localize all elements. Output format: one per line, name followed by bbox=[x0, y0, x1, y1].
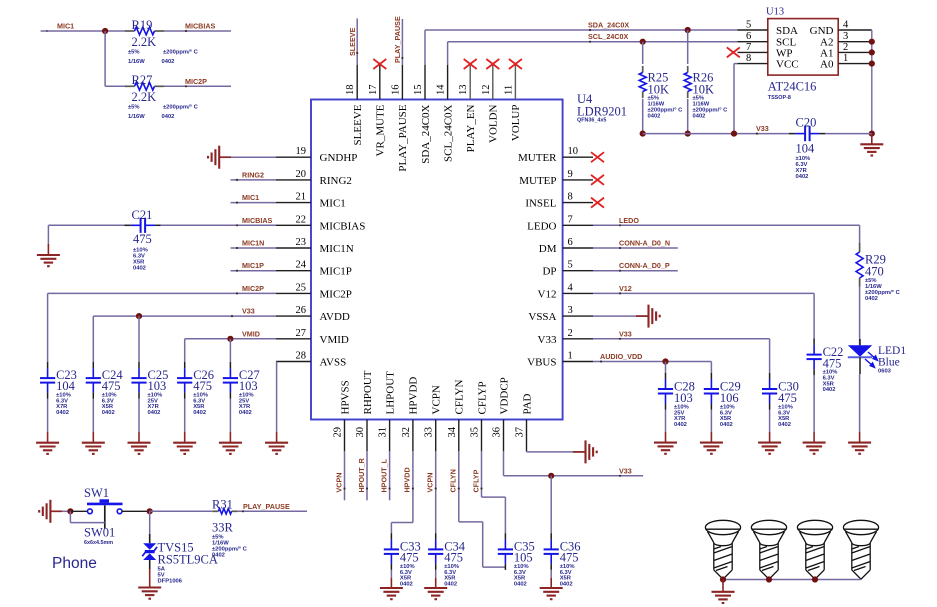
net label anchor bbox=[185, 85, 187, 87]
wire C36 riser bbox=[550, 476, 552, 534]
junction AUDIO_VDD / C28 bbox=[662, 358, 668, 364]
net label anchor bbox=[756, 133, 758, 135]
junction SW1 bbox=[67, 508, 73, 514]
svg-text:0402: 0402 bbox=[778, 422, 791, 428]
wire PAD corner bbox=[526, 450, 528, 453]
wire ground stub bbox=[573, 451, 586, 453]
svg-text:PLAY_PAUSE: PLAY_PAUSE bbox=[243, 502, 290, 511]
ground U13 bbox=[860, 144, 883, 155]
svg-text:3: 3 bbox=[843, 31, 848, 42]
LED LED1 Blue bbox=[848, 339, 878, 374]
svg-text:SCL_24C0X: SCL_24C0X bbox=[588, 32, 629, 41]
svg-text:VCC: VCC bbox=[776, 59, 799, 71]
svg-text:HPOUT_L: HPOUT_L bbox=[379, 458, 388, 492]
svg-text:19: 19 bbox=[296, 146, 307, 157]
capacitor C22 bbox=[807, 345, 822, 370]
junction VMID / C27 bbox=[227, 336, 233, 342]
wire C30 to ground bbox=[769, 410, 771, 433]
svg-text:VR_MUTE: VR_MUTE bbox=[375, 104, 387, 156]
resistor R31 bbox=[212, 509, 238, 514]
svg-text:PLAY_PAUSE: PLAY_PAUSE bbox=[397, 104, 409, 171]
wire C28 to ground bbox=[665, 410, 667, 433]
svg-text:1/16W: 1/16W bbox=[128, 59, 145, 65]
wire R26 top bbox=[687, 30, 689, 64]
svg-text:SW1: SW1 bbox=[84, 486, 109, 500]
svg-text:HPVSS: HPVSS bbox=[339, 380, 351, 414]
wire LEDO bbox=[593, 224, 860, 226]
net label anchor bbox=[412, 487, 414, 489]
wire V33 down to C30 bbox=[769, 339, 771, 374]
wire red ground stem bbox=[390, 578, 392, 588]
svg-text:Phone: Phone bbox=[52, 555, 97, 572]
wire C27 riser bbox=[229, 339, 231, 363]
net label anchor bbox=[236, 202, 238, 204]
svg-text:5: 5 bbox=[568, 260, 573, 271]
wire CFLYN down bbox=[482, 522, 484, 567]
svg-text:23: 23 bbox=[296, 237, 307, 248]
svg-text:15: 15 bbox=[413, 85, 424, 96]
svg-text:3: 3 bbox=[568, 305, 573, 316]
svg-text:MIC1: MIC1 bbox=[242, 193, 259, 202]
svg-text:10K: 10K bbox=[693, 83, 715, 97]
svg-text:103: 103 bbox=[239, 379, 258, 393]
svg-text:MIC1P: MIC1P bbox=[320, 266, 352, 278]
svg-text:33R: 33R bbox=[212, 521, 234, 535]
wire VCC stub bbox=[734, 63, 738, 65]
capacitor C27 bbox=[223, 368, 238, 393]
net label anchor bbox=[619, 247, 621, 249]
wire CFLYN down bbox=[458, 451, 460, 522]
svg-text:R31: R31 bbox=[212, 497, 233, 511]
svg-text:29: 29 bbox=[333, 427, 344, 438]
U4 pin 37 PAD stub bbox=[526, 420, 528, 452]
svg-text:HPOUT_R: HPOUT_R bbox=[357, 457, 366, 492]
U4 pin 9 MUTEP stub bbox=[563, 179, 593, 181]
capacitor C26 bbox=[177, 368, 192, 393]
svg-text:±200ppm/° C: ±200ppm/° C bbox=[163, 50, 199, 56]
U4 pin 8 INSEL stub bbox=[563, 202, 593, 204]
wire red ground stem bbox=[710, 432, 712, 443]
U4 pin 32 HPVDD stub bbox=[412, 420, 414, 452]
wire V33 down to C24 bbox=[92, 316, 94, 362]
ground C26 bbox=[173, 443, 196, 454]
wire C21 to ground bbox=[47, 225, 49, 245]
U4 pin 31 LHPOUT stub bbox=[389, 420, 391, 452]
wire to R27 bbox=[105, 85, 125, 87]
svg-text:R27: R27 bbox=[132, 73, 153, 87]
ground C22 bbox=[803, 443, 826, 454]
wire VDDCP down bbox=[503, 451, 505, 476]
svg-text:MIC2P: MIC2P bbox=[185, 77, 207, 86]
svg-text:CFLYN: CFLYN bbox=[454, 379, 466, 414]
junction A1 bbox=[869, 49, 875, 55]
junction V33 / C25 bbox=[136, 313, 142, 319]
svg-text:CONN-A_D0_N: CONN-A_D0_N bbox=[619, 239, 670, 248]
wire SCL_24C0X riser bbox=[447, 42, 449, 65]
U4 pin 10 MUTER stub bbox=[563, 156, 593, 158]
svg-text:475: 475 bbox=[560, 551, 579, 565]
U13 pin 2 A1 stub bbox=[838, 51, 872, 53]
svg-text:106: 106 bbox=[720, 391, 739, 405]
no-connect X pin 13 bbox=[464, 59, 477, 69]
junction SDA / R26 bbox=[685, 27, 691, 33]
net label anchor bbox=[242, 510, 244, 512]
svg-text:0402: 0402 bbox=[148, 410, 161, 416]
svg-text:V33: V33 bbox=[756, 124, 769, 133]
svg-text:PLAY_EN: PLAY_EN bbox=[465, 104, 477, 152]
U4 pin 1 VBUS stub bbox=[563, 361, 593, 363]
wire HPVDD jog left bbox=[391, 522, 413, 524]
svg-text:LDR9201: LDR9201 bbox=[577, 105, 627, 119]
svg-text:26: 26 bbox=[296, 305, 307, 316]
svg-text:PLAY_PAUSE: PLAY_PAUSE bbox=[393, 16, 402, 63]
svg-text:V33: V33 bbox=[242, 307, 255, 316]
ground C34 bbox=[424, 588, 447, 599]
mounting screw MH1 bbox=[705, 520, 740, 579]
wire HPVDD down bbox=[412, 451, 414, 523]
svg-text:V33: V33 bbox=[619, 329, 632, 338]
ground PAD sideways bbox=[586, 440, 597, 463]
svg-text:TSSOP-8: TSSOP-8 bbox=[768, 95, 791, 101]
U4 pin 7 LEDO stub bbox=[563, 224, 593, 226]
svg-text:RING2: RING2 bbox=[320, 175, 352, 187]
wire VMID down to C26 bbox=[184, 339, 186, 363]
net label anchor bbox=[231, 315, 233, 317]
U13 pin 6 SCL stub bbox=[738, 41, 768, 43]
wire to C29 bbox=[710, 362, 712, 374]
svg-text:MIC2P: MIC2P bbox=[242, 284, 264, 293]
svg-text:AVSS: AVSS bbox=[320, 357, 347, 369]
U4 pin 15 SDA_24C0X stub bbox=[424, 65, 426, 100]
wire GNDHP bbox=[231, 156, 276, 158]
wire RING2 stub bbox=[231, 179, 277, 181]
svg-text:104: 104 bbox=[56, 379, 76, 393]
wire R25 top bbox=[642, 42, 644, 64]
wire PAD to ground bbox=[527, 451, 585, 453]
net label anchor bbox=[435, 487, 437, 489]
U4 pin 12 VOLDN stub bbox=[492, 65, 494, 100]
capacitor C36 bbox=[544, 539, 559, 564]
wire red ground stem bbox=[184, 432, 186, 443]
wire C36 to ground bbox=[550, 570, 552, 578]
svg-text:SDA_24C0X: SDA_24C0X bbox=[588, 21, 629, 30]
net label anchor bbox=[236, 179, 238, 181]
resistor R25 bbox=[639, 66, 646, 98]
svg-text:24: 24 bbox=[296, 260, 307, 271]
svg-text:±5%: ±5% bbox=[128, 50, 140, 56]
wire red ground stem bbox=[435, 578, 437, 588]
wire red ground stem bbox=[722, 580, 724, 592]
svg-text:103: 103 bbox=[148, 379, 167, 393]
svg-text:MIC1N: MIC1N bbox=[242, 239, 264, 248]
svg-text:HPVDD: HPVDD bbox=[408, 377, 420, 415]
U4 pin 36 VDDCP stub bbox=[503, 420, 505, 452]
junction R25 / V33 bbox=[640, 131, 646, 137]
svg-text:10K: 10K bbox=[648, 83, 670, 97]
svg-text:0402: 0402 bbox=[648, 114, 661, 120]
ground C23 bbox=[36, 443, 59, 454]
wire red ground stem bbox=[92, 432, 94, 443]
U4 pin 24 MIC1P stub bbox=[276, 270, 311, 272]
svg-text:475: 475 bbox=[778, 391, 797, 405]
wire C22 to ground bbox=[813, 375, 815, 432]
ground screws bbox=[712, 592, 735, 603]
svg-text:CONN-A_D0_P: CONN-A_D0_P bbox=[619, 261, 670, 270]
wire red ground stem bbox=[859, 432, 861, 443]
svg-text:INSEL: INSEL bbox=[525, 198, 556, 210]
svg-text:5: 5 bbox=[746, 20, 751, 31]
svg-text:7: 7 bbox=[746, 42, 751, 53]
svg-text:VSSA: VSSA bbox=[528, 311, 556, 323]
svg-text:475: 475 bbox=[400, 551, 419, 565]
no-connect X pin 17 bbox=[373, 59, 386, 69]
svg-text:PAD: PAD bbox=[521, 393, 533, 414]
svg-text:103: 103 bbox=[674, 391, 693, 405]
svg-text:0402: 0402 bbox=[674, 422, 687, 428]
wire R26 bottom bbox=[687, 99, 689, 134]
U4 pin 30 RHPOUT stub bbox=[366, 420, 368, 452]
svg-text:AUDIO_VDD: AUDIO_VDD bbox=[600, 352, 642, 361]
svg-text:8: 8 bbox=[568, 192, 573, 203]
U4 pin 2 V33 stub bbox=[563, 338, 593, 340]
wire MIC2P bbox=[48, 292, 276, 294]
wire red ground stem bbox=[665, 432, 667, 443]
U13 pin 4 GND stub bbox=[838, 29, 872, 31]
svg-text:U13: U13 bbox=[766, 7, 784, 18]
junction screw 3 bbox=[812, 576, 818, 582]
svg-text:Blue: Blue bbox=[878, 357, 900, 369]
U13 pin 7 WP stub bbox=[738, 51, 768, 53]
wire red ground stem bbox=[47, 432, 49, 443]
U13 pin 3 A2 stub bbox=[838, 41, 872, 43]
svg-text:RHPOUT: RHPOUT bbox=[362, 370, 374, 414]
svg-text:MICBIAS: MICBIAS bbox=[185, 22, 216, 31]
capacitor C29 bbox=[704, 379, 719, 404]
svg-text:18: 18 bbox=[345, 85, 356, 96]
U4 pin 13 PLAY_EN stub bbox=[469, 65, 471, 100]
svg-text:0402: 0402 bbox=[865, 296, 878, 302]
wire SW1 loop down bbox=[69, 511, 71, 522]
ground C29 bbox=[700, 443, 723, 454]
capacitor C30 bbox=[762, 379, 777, 404]
junction SCL / R25 bbox=[640, 39, 646, 45]
wire CFLYP down bbox=[481, 451, 483, 497]
svg-text:28: 28 bbox=[296, 351, 307, 362]
net label anchor bbox=[600, 360, 602, 362]
resistor R26 bbox=[684, 66, 691, 98]
svg-text:0402: 0402 bbox=[133, 266, 146, 272]
IC U13 AT24C16 body bbox=[768, 19, 838, 76]
wire VMID bbox=[185, 338, 276, 340]
resistor R19 bbox=[125, 27, 164, 35]
wire C25 to ground bbox=[138, 399, 140, 433]
svg-text:12: 12 bbox=[481, 85, 492, 96]
wire red ground stem bbox=[813, 432, 815, 443]
wire red ground stem bbox=[276, 432, 278, 443]
junction screw 2 bbox=[766, 576, 772, 582]
no-connect X pin 8 bbox=[591, 198, 604, 208]
svg-text:LED1: LED1 bbox=[878, 345, 906, 357]
wire C24 to ground bbox=[92, 399, 94, 433]
U4 pin 26 AVDD stub bbox=[276, 315, 311, 317]
U4 pin 23 MIC1N stub bbox=[276, 247, 311, 249]
U4 pin 25 MIC2P stub bbox=[276, 292, 311, 294]
svg-text:0402: 0402 bbox=[693, 114, 706, 120]
U4 pin 16 PLAY_PAUSE stub bbox=[401, 65, 403, 100]
ground C30 bbox=[758, 443, 781, 454]
U4 pin 34 CFLYN stub bbox=[458, 420, 460, 452]
svg-text:DM: DM bbox=[539, 243, 557, 255]
wire red ground stem bbox=[138, 432, 140, 443]
capacitor C20 bbox=[795, 126, 820, 141]
wire red ground stem bbox=[149, 569, 151, 588]
svg-text:VCPN: VCPN bbox=[426, 473, 435, 493]
U4 pin 17 VR_MUTE stub bbox=[379, 65, 381, 100]
svg-text:GNDHP: GNDHP bbox=[320, 152, 358, 164]
svg-text:V33: V33 bbox=[619, 466, 632, 475]
net label anchor bbox=[366, 487, 368, 489]
svg-text:AT24C16: AT24C16 bbox=[768, 80, 817, 94]
svg-text:VDDCP: VDDCP bbox=[498, 377, 510, 414]
svg-text:1: 1 bbox=[843, 53, 848, 64]
wire PLAY_PAUSE bbox=[238, 510, 307, 512]
U4 pin 5 DP stub bbox=[563, 270, 593, 272]
U4 pin 6 DM stub bbox=[563, 247, 593, 249]
svg-text:MIC1: MIC1 bbox=[320, 198, 346, 210]
svg-text:475: 475 bbox=[823, 357, 842, 371]
wire AUDIO_VDD bbox=[593, 361, 711, 363]
net label anchor bbox=[589, 41, 591, 43]
wire MIC1 stub bbox=[231, 202, 277, 204]
ground VSSA sideways bbox=[649, 305, 660, 328]
wire MIC1 vertical bbox=[104, 31, 106, 86]
svg-text:QFN36_4x5: QFN36_4x5 bbox=[577, 118, 606, 124]
junction R26 / V33 bbox=[685, 131, 691, 137]
svg-text:6: 6 bbox=[746, 31, 751, 42]
no-connect X pin 12 bbox=[486, 59, 499, 69]
wire MIC2P down to C23 bbox=[47, 293, 49, 362]
wire C27 to ground bbox=[229, 399, 231, 433]
net label anchor bbox=[236, 247, 238, 249]
svg-text:SLEEVE: SLEEVE bbox=[348, 27, 357, 56]
wire R29 to LED1 bbox=[859, 286, 861, 345]
svg-text:MIC1: MIC1 bbox=[57, 22, 74, 31]
svg-text:C21: C21 bbox=[132, 208, 153, 222]
wire HPOUT_L stub bbox=[389, 451, 391, 500]
svg-text:VMID: VMID bbox=[320, 334, 349, 346]
U4 pin 35 CFLYP stub bbox=[481, 420, 483, 452]
ground C27 bbox=[219, 443, 242, 454]
net label anchor bbox=[619, 475, 621, 477]
svg-text:105: 105 bbox=[514, 551, 533, 565]
svg-text:VBUS: VBUS bbox=[527, 357, 556, 369]
junction VCC / V33 bbox=[731, 131, 737, 137]
wire SW1 pin2 bbox=[122, 510, 150, 512]
U4 pin 4 V12 stub bbox=[563, 292, 593, 294]
wire V12 bbox=[593, 292, 814, 294]
wire down to C33 bbox=[390, 523, 392, 534]
net label anchor bbox=[458, 487, 460, 489]
svg-text:C20: C20 bbox=[796, 116, 817, 130]
svg-text:MICBIAS: MICBIAS bbox=[320, 220, 366, 232]
svg-text:0402: 0402 bbox=[444, 581, 457, 587]
ground TVS15 bbox=[138, 588, 161, 599]
svg-text:MUTEP: MUTEP bbox=[519, 175, 556, 187]
svg-text:104: 104 bbox=[796, 142, 816, 156]
no-connect X U13 WP bbox=[727, 47, 740, 57]
svg-text:35: 35 bbox=[470, 427, 481, 438]
wire CFLYN jog right bbox=[459, 521, 483, 523]
svg-text:6: 6 bbox=[568, 237, 573, 248]
U4 pin 11 VOLUP stub bbox=[514, 65, 516, 100]
wire U13 GND bus vertical bbox=[871, 30, 873, 134]
svg-text:470: 470 bbox=[865, 265, 884, 279]
net label anchor bbox=[236, 224, 238, 226]
svg-text:0402: 0402 bbox=[796, 174, 809, 180]
no-connect X pin 10 bbox=[591, 152, 604, 162]
svg-text:SDA: SDA bbox=[776, 25, 798, 37]
wire SCL_24C0X horizontal bbox=[448, 41, 738, 43]
net label anchor bbox=[356, 52, 358, 54]
wire CONN-A_D0_P bbox=[593, 270, 678, 272]
wire SDA_24C0X horizontal bbox=[425, 29, 738, 31]
node MIC1 anchor bbox=[46, 30, 48, 32]
wire C34 to ground bbox=[435, 570, 437, 578]
net label anchor bbox=[589, 29, 591, 31]
no-connect X pin 9 bbox=[591, 175, 604, 185]
svg-text:22: 22 bbox=[296, 214, 307, 225]
mounting screw MH4 bbox=[843, 520, 878, 579]
wire HPOUT_R stub bbox=[366, 451, 368, 500]
wire C29 to ground bbox=[710, 410, 712, 433]
svg-text:2.2K: 2.2K bbox=[132, 35, 157, 49]
svg-text:LHPOUT: LHPOUT bbox=[384, 371, 396, 415]
svg-text:36: 36 bbox=[492, 427, 503, 438]
svg-text:0402: 0402 bbox=[162, 59, 175, 65]
net label anchor bbox=[343, 487, 345, 489]
net label anchor bbox=[619, 292, 621, 294]
capacitor C23 bbox=[40, 368, 55, 393]
net label anchor bbox=[619, 270, 621, 272]
net label anchor bbox=[401, 57, 403, 59]
wire MIC2P upper bbox=[164, 85, 231, 87]
ground SW1 sideways bbox=[39, 500, 50, 523]
wire VSSA bbox=[593, 315, 647, 317]
svg-text:LEDO: LEDO bbox=[527, 220, 556, 232]
wire MICBIAS to pin 22 bbox=[161, 224, 277, 226]
wire SW1 loop right bbox=[70, 522, 104, 524]
svg-text:475: 475 bbox=[193, 379, 212, 393]
svg-text:0402: 0402 bbox=[720, 422, 733, 428]
svg-text:0402: 0402 bbox=[102, 410, 115, 416]
wire AVSS down bbox=[276, 362, 278, 433]
wire V33 right bbox=[593, 338, 770, 340]
U4 pin 21 MIC1 stub bbox=[276, 202, 311, 204]
wire LED1 to ground bbox=[859, 374, 861, 432]
wire C33 to ground bbox=[390, 570, 392, 578]
svg-text:0402: 0402 bbox=[239, 410, 252, 416]
svg-text:33: 33 bbox=[424, 427, 435, 438]
net label anchor bbox=[236, 270, 238, 272]
net label anchor bbox=[185, 30, 187, 32]
svg-text:0402: 0402 bbox=[560, 581, 573, 587]
svg-text:V33: V33 bbox=[538, 334, 557, 346]
svg-text:0402: 0402 bbox=[400, 581, 413, 587]
wire CFLYP jog right bbox=[482, 496, 506, 498]
svg-text:20: 20 bbox=[296, 169, 307, 180]
U4 pin 28 AVSS stub bbox=[276, 361, 311, 363]
svg-text:4: 4 bbox=[843, 20, 849, 31]
